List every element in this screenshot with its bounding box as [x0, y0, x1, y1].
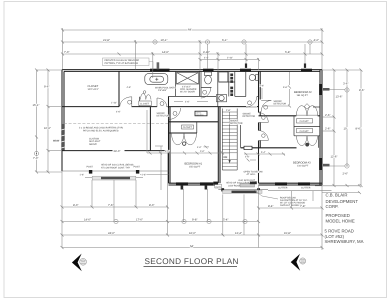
linen shelves	[230, 74, 233, 97]
door tag circle G	[262, 116, 266, 120]
door tag circle C	[203, 90, 207, 94]
vent hatch above wall	[157, 62, 160, 69]
top vertical extension lines	[63, 28, 323, 78]
door tag circle A	[128, 100, 132, 104]
door hall upper	[259, 113, 269, 123]
svg-text:13'-4": 13'-4"	[235, 232, 242, 235]
bedroom1 closet walls	[169, 121, 219, 123]
svg-text:155 SQ FT: 155 SQ FT	[189, 166, 201, 169]
door walk-in closet	[120, 97, 132, 107]
svg-text:CLOSET: CLOSET	[88, 85, 99, 88]
deck rail post right	[257, 188, 260, 191]
svg-text:10': 10'	[344, 128, 348, 131]
svg-text:7'-0": 7'-0"	[33, 157, 38, 160]
svg-text:2'-10": 2'-10"	[227, 57, 233, 60]
24'-0 label on wall line	[113, 149, 125, 153]
svg-text:5'-8": 5'-8"	[285, 51, 290, 54]
svg-text:DETECTOR: DETECTOR	[157, 115, 170, 118]
svg-text:CLOSET: CLOSET	[300, 130, 310, 133]
door tag circle E	[173, 111, 177, 115]
bottom row A right	[257, 207, 324, 210]
svg-text:DETECTOR: DETECTOR	[243, 115, 256, 118]
svg-text:SKYLIGHT: SKYLIGHT	[89, 140, 101, 143]
svg-text:2'-6": 2'-6"	[325, 114, 330, 117]
svg-text:8'-0": 8'-0"	[149, 204, 154, 207]
svg-text:C.B. BLAIR: C.B. BLAIR	[326, 193, 348, 198]
svg-text:CORP.: CORP.	[326, 204, 339, 209]
svg-text:14'-6": 14'-6"	[162, 51, 169, 54]
svg-text:DETECTOR: DETECTOR	[274, 102, 287, 105]
tag circle dots	[36, 41, 348, 222]
frosted note leader	[149, 62, 153, 70]
mini closet knob	[143, 91, 146, 94]
top wall window blocks	[150, 69, 312, 72]
bedroom2 closet double doors lobes	[296, 106, 317, 116]
bottom wall bedroom3	[259, 183, 323, 185]
dim 9'-6" bedroom2 vertical	[289, 72, 291, 85]
bath partition walls	[176, 71, 246, 106]
svg-text:2 x 10 RIDGE AND JACK RAFTERS: 2 x 10 RIDGE AND JACK RAFTERS (TYP)	[79, 127, 123, 130]
corridor wall	[259, 71, 261, 183]
svg-text:POST: POST	[87, 165, 94, 168]
svg-text:4'-6": 4'-6"	[116, 110, 121, 113]
bottom row A	[61, 206, 170, 209]
low roof edge left	[62, 170, 169, 172]
rail post right	[136, 170, 139, 174]
svg-text:13'-6": 13'-6"	[336, 96, 343, 99]
svg-text:9'-6": 9'-6"	[283, 86, 288, 89]
shelf column side lines	[228, 72, 230, 96]
whirlpool tub	[145, 73, 168, 84]
rail post left	[89, 170, 92, 174]
door toilet room 2	[246, 96, 257, 107]
vanity with sink	[217, 95, 227, 102]
title underline	[144, 266, 238, 268]
bottom row C	[61, 234, 324, 237]
svg-text:AT LOW ROOF, CONT. TYP.: AT LOW ROOF, CONT. TYP.	[101, 166, 131, 169]
svg-text:FROSTED GLASS W/ OBSCURE: FROSTED GLASS W/ OBSCURE	[105, 59, 140, 62]
window label right wall dark	[323, 88, 330, 91]
deck railing band	[223, 190, 263, 193]
stair bottom edge	[222, 169, 237, 171]
closet column walls	[294, 116, 320, 148]
svg-text:3'-0": 3'-0"	[200, 150, 205, 153]
svg-text:10'-6": 10'-6"	[44, 127, 51, 130]
svg-text:7'-0": 7'-0"	[64, 51, 69, 54]
svg-text:16'-0": 16'-0"	[189, 232, 196, 235]
bedroom1 closet knob	[183, 142, 186, 145]
svg-text:ACCESS: ACCESS	[196, 114, 204, 117]
stairwell rails	[222, 109, 237, 171]
open below dim marks	[247, 159, 257, 162]
left exterior wall	[62, 70, 64, 171]
svg-text:2'-6": 2'-6"	[343, 173, 348, 176]
closet room bottom wall	[62, 150, 169, 152]
walk-in closet wall	[118, 71, 120, 106]
svg-text:4'-6": 4'-6"	[185, 100, 190, 103]
deck rail post left	[221, 188, 224, 191]
ridge dashed line	[64, 123, 168, 125]
svg-text:1'-10": 1'-10"	[111, 101, 117, 104]
bedroom3 north wall	[241, 147, 297, 149]
svg-text:4'-4": 4'-4"	[204, 57, 209, 60]
door bedroom3 entry	[259, 131, 269, 141]
svg-text:OPEN TO BELOW: OPEN TO BELOW	[244, 171, 264, 174]
svg-text:17'-0": 17'-0"	[136, 219, 143, 222]
door tag circle B	[160, 102, 164, 106]
row B tag circles	[114, 219, 118, 223]
svg-text:7'-8": 7'-8"	[300, 205, 305, 208]
low roof inner edge	[140, 174, 169, 176]
bedroom3 closet knob	[306, 143, 309, 146]
closet label box bedroom1	[182, 125, 194, 129]
door tag circle H	[262, 134, 266, 138]
hall dim 4'-6"	[174, 100, 183, 102]
svg-text:10'0"x10'1": 10'0"x10'1"	[88, 88, 100, 91]
svg-text:64': 64'	[188, 29, 192, 32]
mini closet side wall	[139, 97, 141, 107]
linen closet	[219, 72, 228, 82]
svg-text:GUTTER: GUTTER	[278, 187, 288, 190]
bottom row D overall	[61, 246, 324, 249]
bedroom1 closet double doors lobes	[172, 133, 197, 145]
right wall sill mark	[313, 106, 320, 108]
svg-text:3'6"x6'8": 3'6"x6'8"	[158, 89, 167, 92]
stair down arrow	[229, 112, 231, 160]
svg-text:HEAD OF 2x8 CL RAIL (BEAM): HEAD OF 2x8 CL RAIL (BEAM)	[101, 164, 134, 167]
bottom vertical extension lines	[62, 151, 322, 250]
svg-text:1'-6": 1'-6"	[80, 173, 85, 176]
svg-text:24'-0": 24'-0"	[108, 232, 115, 235]
svg-text:(LOT #52): (LOT #52)	[325, 234, 345, 239]
svg-text:PATTERN, TYP. AT BATHROOM: PATTERN, TYP. AT BATHROOM	[105, 62, 138, 65]
toilet 2	[249, 74, 258, 80]
top exterior wall	[62, 70, 322, 72]
svg-text:14'-0": 14'-0"	[84, 219, 91, 222]
railing band left	[92, 176, 136, 180]
svg-text:15'-1": 15'-1"	[33, 104, 40, 107]
svg-text:12'-6": 12'-6"	[331, 156, 338, 159]
bedroom2 closet diamond	[304, 104, 309, 110]
svg-text:W/ 2'0" DOOR: W/ 2'0" DOOR	[180, 90, 195, 93]
svg-text:9'-6": 9'-6"	[44, 86, 49, 89]
svg-text:24'-0": 24'-0"	[114, 150, 121, 153]
closet label box right 1	[297, 119, 313, 123]
bedroom1 interior dim row	[147, 152, 230, 155]
svg-text:4'-0": 4'-0"	[197, 146, 202, 149]
svg-text:4'-2": 4'-2"	[314, 39, 319, 42]
svg-text:10'-1": 10'-1"	[161, 39, 168, 42]
window tag circles row2	[153, 40, 157, 44]
svg-text:9'-2": 9'-2"	[165, 150, 170, 153]
right tag circles	[345, 88, 349, 92]
bottom wall bedroom1	[169, 183, 219, 185]
right exterior wall	[320, 70, 322, 185]
roof edge right of deck	[268, 190, 332, 192]
svg-text:7'-6": 7'-6"	[108, 204, 113, 207]
bath south wall	[169, 95, 217, 97]
svg-text:SHREWSBURY, MA: SHREWSBURY, MA	[325, 239, 364, 244]
svg-text:CLOSET: CLOSET	[140, 102, 150, 105]
svg-text:DEVELOPMENT: DEVELOPMENT	[326, 199, 359, 204]
svg-text:184 SQ FT: 184 SQ FT	[297, 94, 309, 97]
bedroom1 west wall	[169, 96, 171, 183]
svg-text:1'-6": 1'-6"	[142, 173, 147, 176]
svg-text:8'-4": 8'-4"	[268, 205, 273, 208]
frosted glass note box	[103, 58, 150, 66]
leader to roof note	[254, 190, 278, 199]
stair right wall	[240, 125, 242, 148]
svg-text:PITCH AND ELEV. AS REQUIRED: PITCH AND ELEV. AS REQUIRED	[83, 129, 119, 132]
bedroom2 south wall	[259, 115, 321, 117]
svg-text:64': 64'	[190, 245, 194, 248]
svg-text:5 ROVE ROAD: 5 ROVE ROAD	[325, 228, 354, 233]
svg-text:PROPOSED: PROPOSED	[326, 213, 350, 218]
svg-text:6'x6' SKYLIGHT: 6'x6' SKYLIGHT	[239, 179, 256, 182]
svg-text:4'-6": 4'-6"	[127, 86, 132, 89]
closet label box right 2	[297, 128, 313, 132]
svg-text:4'-10": 4'-10"	[203, 51, 210, 54]
right wall window blocks	[319, 84, 322, 170]
svg-text:2'-6": 2'-6"	[325, 128, 330, 131]
svg-text:4'-6": 4'-6"	[245, 156, 250, 159]
ceramic shower	[177, 73, 199, 85]
gutter box on wall	[244, 146, 252, 149]
svg-text:6'-1": 6'-1"	[222, 39, 227, 42]
dim row 4 short	[199, 58, 261, 61]
door tag circle F	[264, 105, 268, 109]
svg-text:GUTTER: GUTTER	[301, 187, 311, 190]
svg-text:ABOVE: ABOVE	[89, 143, 97, 146]
gutter box label	[215, 185, 222, 188]
svg-text:5'-4": 5'-4"	[223, 219, 228, 222]
svg-text:BEDROOM #1: BEDROOM #1	[185, 163, 203, 166]
door bedroom1 entry	[169, 108, 181, 119]
left tag circle	[34, 151, 38, 155]
attic access box	[195, 111, 207, 116]
svg-text:BEDROOM #2: BEDROOM #2	[294, 91, 312, 94]
svg-text:CLOSET: CLOSET	[183, 126, 193, 129]
door bath entry	[157, 98, 167, 107]
left vertical interior dim	[147, 110, 163, 190]
bottom wall window blocks	[176, 182, 310, 186]
bedroom3 closet double doors lobes	[297, 136, 318, 146]
hall west wall	[149, 107, 151, 151]
svg-text:8'-0": 8'-0"	[73, 204, 78, 207]
door bedroom2 entry	[261, 100, 271, 111]
title block texts	[325, 193, 364, 245]
svg-text:GUTR: GUTR	[215, 185, 221, 188]
svg-text:CLOSET: CLOSET	[300, 120, 310, 123]
north arrow left	[72, 254, 87, 272]
dim line to closet bedroom2	[262, 105, 290, 107]
left wall window hatch	[61, 124, 64, 151]
bottom row B	[61, 220, 261, 223]
svg-text:POST: POST	[134, 165, 141, 168]
svg-text:BEDROOM #3: BEDROOM #3	[293, 162, 311, 165]
north arrow right	[291, 254, 306, 271]
svg-text:CUSTOM: CUSTOM	[89, 137, 99, 140]
window mullion stubs below bedroom1 windows	[181, 185, 208, 190]
door tag circle D	[248, 101, 252, 105]
door water closet	[201, 87, 211, 98]
skylight hatch row	[240, 183, 255, 187]
dim row 2	[61, 41, 324, 44]
svg-text:3'-6": 3'-6"	[343, 83, 348, 86]
svg-text:134 SQ FT: 134 SQ FT	[297, 165, 309, 168]
svg-text:WDW: WDW	[53, 140, 60, 143]
toilet room header wall	[201, 86, 212, 88]
svg-text:21'-8": 21'-8"	[103, 39, 110, 42]
toilet 1	[205, 72, 212, 84]
svg-text:2'-8": 2'-8"	[226, 109, 231, 112]
svg-text:8'-6": 8'-6"	[359, 89, 364, 92]
svg-text:9'-8": 9'-8"	[192, 219, 197, 222]
mid horizontal wall with door gaps	[62, 106, 259, 108]
svg-text:SECOND FLOOR PLAN: SECOND FLOOR PLAN	[145, 257, 239, 266]
deck edge center	[218, 189, 268, 191]
svg-text:15'-8": 15'-8"	[284, 232, 291, 235]
bedroom1 east wall	[218, 107, 220, 184]
stair treads	[222, 112, 237, 166]
svg-text:8'-6": 8'-6"	[356, 128, 361, 131]
svg-text:5'-4": 5'-4"	[261, 151, 266, 154]
bath mini closet double doors	[141, 93, 152, 99]
svg-text:DETECTOR: DETECTOR	[230, 122, 243, 125]
svg-text:AT HALL: AT HALL	[247, 173, 257, 176]
svg-text:8'-6": 8'-6"	[260, 84, 265, 87]
svg-text:DN: DN	[224, 156, 228, 159]
closet label box (bath)	[139, 101, 152, 106]
svg-text:MODEL HOME: MODEL HOME	[326, 219, 355, 224]
dim line bottom right 1	[315, 184, 361, 194]
dim row bedroom3 hall	[244, 153, 285, 156]
dim row 3	[61, 53, 324, 56]
window tick marks above top wall	[245, 63, 247, 68]
dim row 1 overall	[61, 29, 324, 32]
